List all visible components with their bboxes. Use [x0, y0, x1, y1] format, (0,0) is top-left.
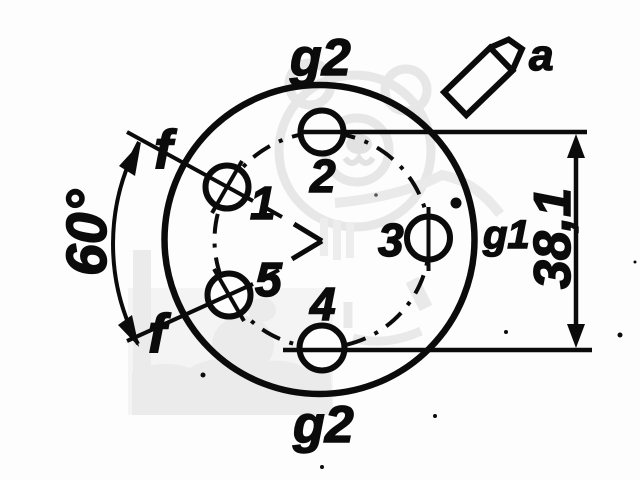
watermark leg band — [348, 302, 421, 341]
svg-text:2: 2 — [309, 150, 336, 202]
svg-text:38,1: 38,1 — [524, 188, 582, 289]
pitch-circle tangent through pin 1 — [212, 161, 242, 213]
svg-text:f: f — [154, 118, 177, 180]
svg-text:1: 1 — [250, 177, 276, 229]
svg-text:g1: g1 — [482, 213, 530, 257]
watermark bear logo — [279, 63, 500, 260]
pin 4 — [300, 326, 345, 371]
pin 3 — [407, 217, 450, 260]
arrowhead bottom of 60 deg arc — [118, 315, 139, 347]
arrowhead top of 60 deg arc — [119, 142, 141, 176]
wire: vertical dimension line — [574, 148, 579, 336]
tube envelope outer circle — [165, 85, 475, 394]
svg-text:5: 5 — [255, 254, 283, 307]
pitch-circle tangent through pin 5 — [214, 269, 244, 321]
svg-text:3: 3 — [378, 214, 404, 266]
svg-text:g2: g2 — [289, 29, 351, 87]
arrowhead bottom of 38,1 dimension — [567, 324, 585, 348]
watermark left ear — [289, 63, 331, 105]
watermark nose — [346, 134, 372, 154]
pin 5 — [208, 274, 251, 317]
watermark mouth — [345, 158, 373, 163]
svg-text:g2: g2 — [292, 396, 354, 454]
svg-text:60°: 60° — [55, 189, 119, 276]
60 degree dimension arc — [113, 142, 139, 344]
pin 1 — [206, 166, 249, 209]
watermark right ear — [385, 69, 427, 111]
wire: top dimension line through pin 2 — [298, 130, 587, 135]
svg-text:4: 4 — [309, 278, 336, 330]
pin 2 — [301, 111, 344, 154]
pin pitch circle (dash-dot) — [215, 133, 430, 348]
watermark leg patch — [412, 280, 426, 308]
watermark paw claws — [324, 218, 350, 260]
watermark head outline — [279, 75, 431, 227]
arrowhead top of 38,1 dimension — [567, 134, 585, 158]
watermark arm swoosh — [335, 175, 500, 214]
wire: f line through pin 5 to center vertex — [127, 241, 322, 341]
anode top-cap symbol — [444, 32, 528, 115]
watermark muzzle — [325, 118, 389, 182]
wire: bottom dimension line through pin 4 — [283, 348, 592, 353]
svg-text:a: a — [529, 31, 553, 80]
wire: f line through pin 1 to center vertex — [127, 132, 322, 241]
pitch-circle tangent through pin 3 — [427, 207, 431, 271]
watermark paper haze lower-left — [128, 288, 333, 415]
speckle dots — [201, 193, 637, 469]
